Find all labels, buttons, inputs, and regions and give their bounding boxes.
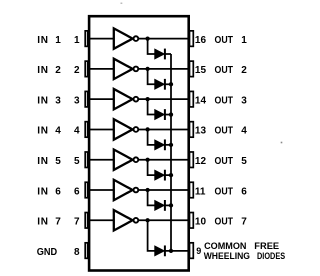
svg-text:7: 7 [74, 217, 80, 228]
svg-text:DIODES: DIODES [257, 251, 285, 261]
svg-text:5: 5 [55, 156, 61, 167]
svg-text:3: 3 [55, 95, 61, 106]
svg-text:6: 6 [74, 186, 80, 197]
svg-text:GND: GND [37, 247, 57, 258]
svg-text:OUT: OUT [215, 156, 234, 167]
svg-text:7: 7 [55, 217, 61, 228]
svg-text:8: 8 [74, 247, 80, 258]
svg-text:IN: IN [37, 156, 48, 167]
svg-text:OUT: OUT [215, 35, 234, 46]
svg-text:6: 6 [241, 186, 247, 197]
svg-text:11: 11 [195, 186, 206, 197]
svg-text:WHEELING: WHEELING [204, 251, 250, 261]
svg-text:OUT: OUT [215, 65, 234, 76]
svg-text:12: 12 [195, 156, 207, 167]
svg-text:3: 3 [74, 95, 80, 106]
svg-text:2: 2 [74, 65, 80, 76]
svg-text:IN: IN [37, 217, 48, 228]
svg-text:OUT: OUT [215, 95, 234, 106]
svg-text:16: 16 [195, 35, 207, 46]
svg-text:IN: IN [37, 95, 48, 106]
svg-text:5: 5 [241, 156, 247, 167]
svg-text:4: 4 [55, 126, 61, 137]
svg-text:IN: IN [37, 65, 48, 76]
svg-text:9: 9 [196, 246, 201, 256]
svg-text:OUT: OUT [215, 126, 234, 137]
svg-text:7: 7 [241, 217, 247, 228]
svg-text:14: 14 [195, 95, 207, 106]
svg-text:IN: IN [37, 35, 48, 46]
svg-text:FREE: FREE [254, 241, 279, 251]
svg-text:1: 1 [74, 35, 80, 46]
svg-text:OUT: OUT [215, 217, 234, 228]
svg-text:IN: IN [37, 126, 48, 137]
svg-text:4: 4 [241, 126, 247, 137]
svg-text:1: 1 [241, 35, 247, 46]
svg-text:4: 4 [74, 126, 80, 137]
svg-text:15: 15 [195, 65, 207, 76]
svg-text:COMMON: COMMON [204, 241, 247, 251]
svg-text:6: 6 [55, 186, 61, 197]
svg-text:IN: IN [37, 186, 48, 197]
svg-text:2: 2 [241, 65, 247, 76]
svg-text:2: 2 [55, 65, 61, 76]
svg-text:1: 1 [55, 35, 61, 46]
svg-text:3: 3 [241, 95, 247, 106]
svg-text:5: 5 [74, 156, 80, 167]
svg-text:10: 10 [195, 217, 207, 228]
svg-text:OUT: OUT [215, 186, 234, 197]
svg-text:13: 13 [195, 126, 207, 137]
